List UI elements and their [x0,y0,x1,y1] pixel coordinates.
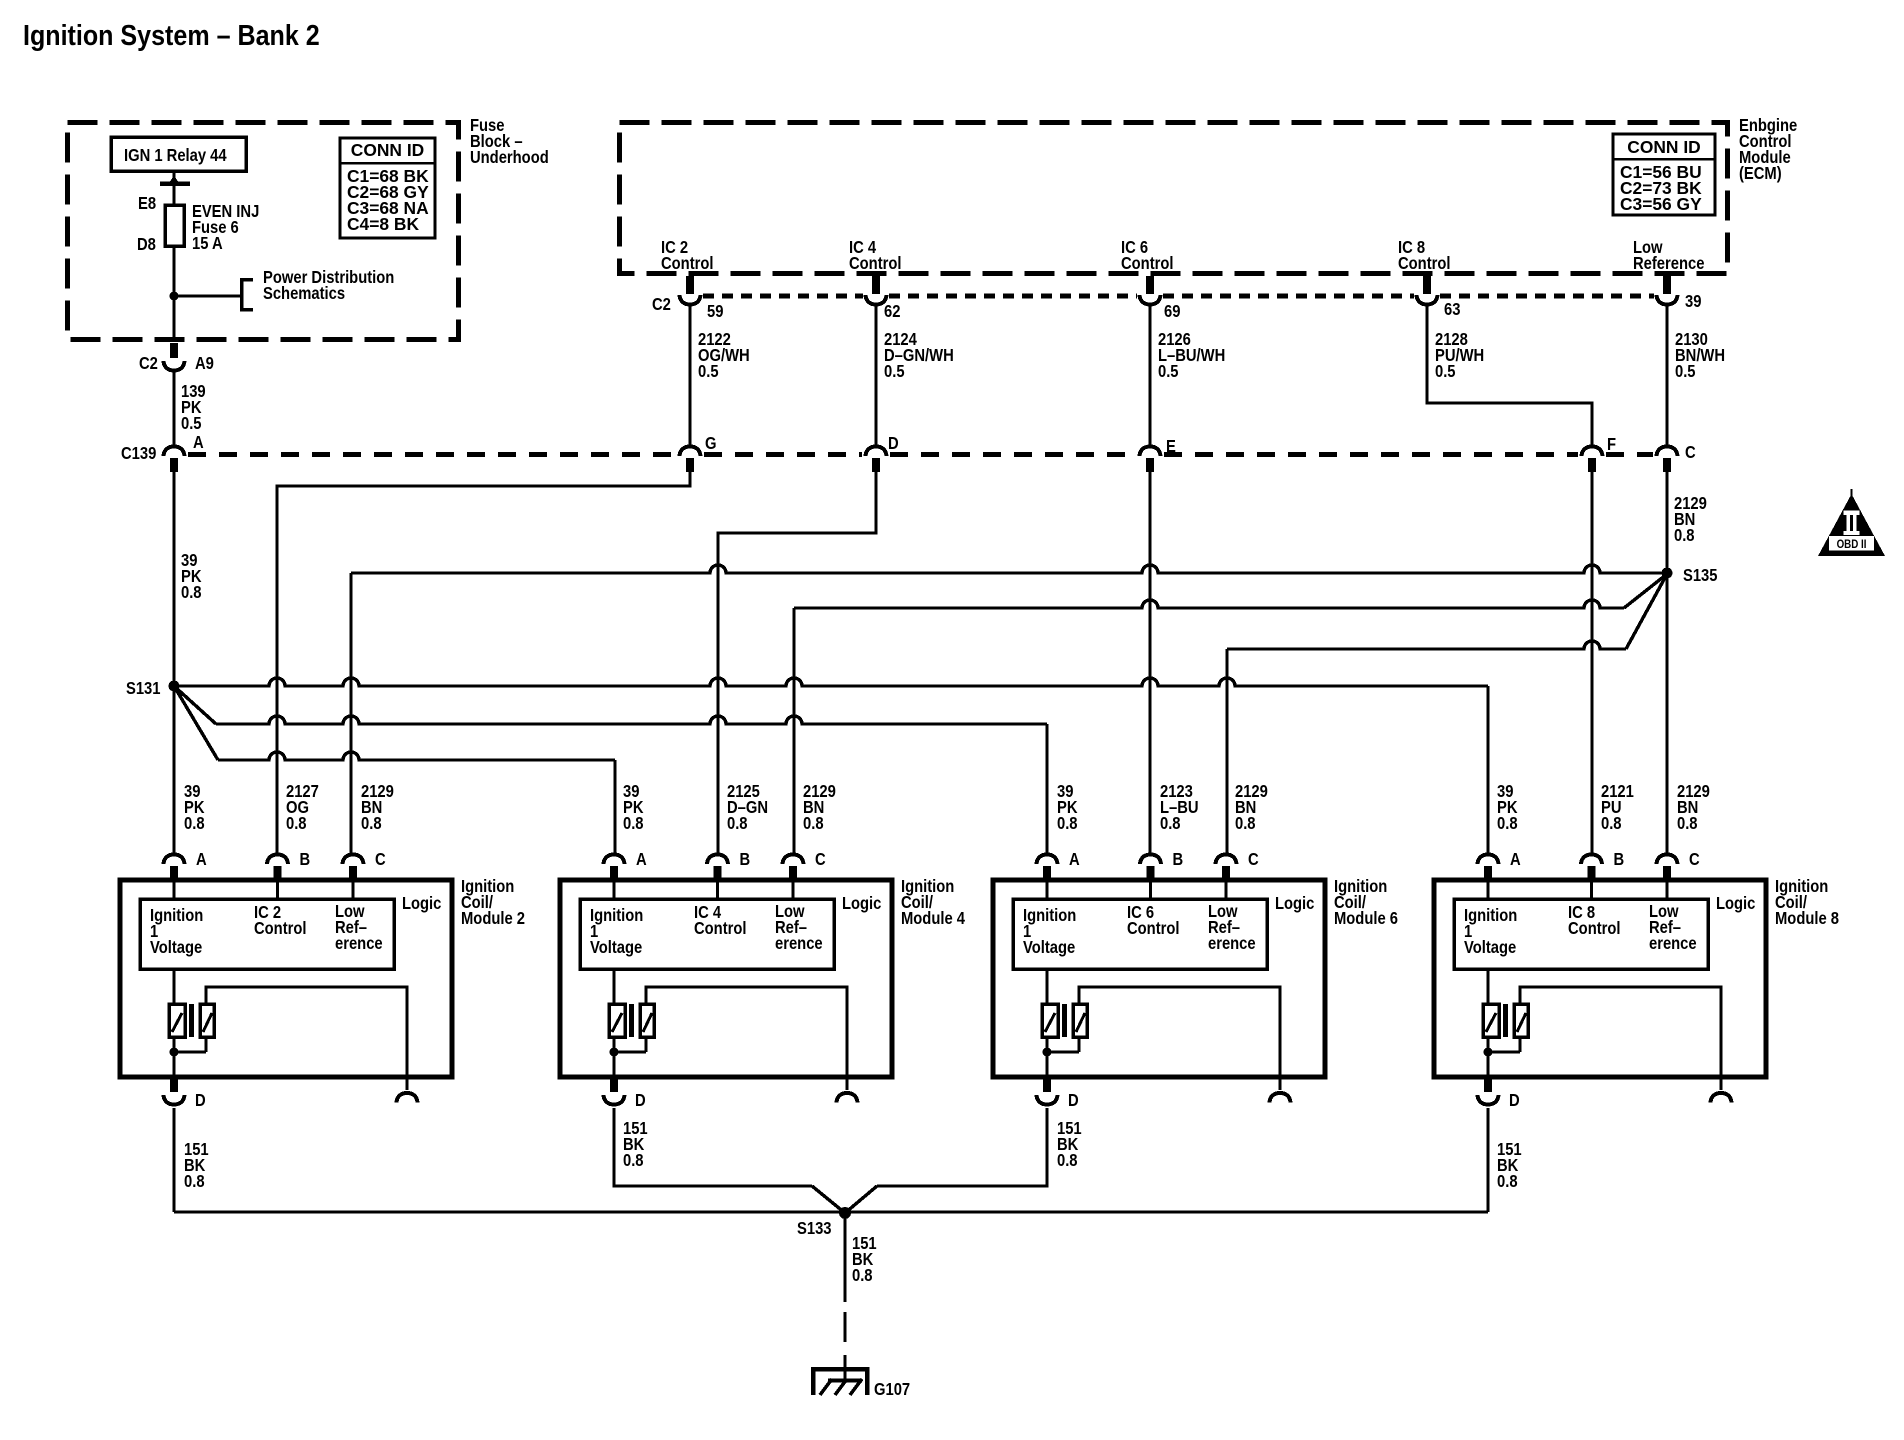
wire low reference module4 C to S135 [794,574,1667,853]
connector ECM C2 pin 69 [1140,276,1161,305]
svg-text:A9: A9 [195,354,214,373]
module 8 coil secondary winding [1514,1004,1528,1037]
svg-text:69: 69 [1164,302,1180,321]
module 8 pin C connector [1657,855,1678,882]
svg-text:A: A [196,850,207,869]
svg-text:Voltage: Voltage [1023,938,1075,957]
label Fuse Block Underhood [470,116,549,167]
label 39 PK 0.8 [184,782,205,833]
label 2125 D–GN 0.8 [727,782,768,833]
module 8 pin C internal wire [1665,881,1668,899]
wire 39 PK C139 A to S131 [172,472,175,686]
connector C2 terminal A9 [164,343,185,371]
label pin A module 4 [636,850,647,869]
svg-text:D: D [888,434,899,453]
svg-text:0.8: 0.8 [1235,814,1256,833]
svg-text:Control: Control [849,254,902,273]
wire 2127 OG from G to module2 B [277,472,690,853]
svg-text:erence: erence [775,934,823,953]
label Ignition 1 Voltage module 2 [150,906,203,957]
connector ECM C2 pin 63 [1417,276,1438,305]
label 2128 PU/WH 0.5 [1435,330,1484,381]
label 151 BK 0.8 at S133 [852,1234,877,1285]
label pin 69 [1164,302,1180,321]
svg-text:D: D [1509,1091,1520,1110]
svg-text:0.8: 0.8 [1601,814,1622,833]
fuse 6 EVEN INJ 15A [165,205,184,246]
svg-text:C: C [815,850,826,869]
module 2 logic box [140,899,394,969]
module 6 pin B internal wire [1149,881,1152,899]
module 2 pin A internal wire [172,881,175,899]
module 8 pin B internal wire [1590,881,1593,899]
label pin F [1607,435,1616,454]
label pin A module 2 [196,850,207,869]
module 4 coil core [629,1004,634,1037]
svg-text:Ignition System – Bank 2: Ignition System – Bank 2 [23,20,320,52]
svg-text:G: G [705,434,716,453]
svg-text:B: B [740,850,751,869]
svg-text:S131: S131 [126,679,161,698]
label pin D module 4 [635,1091,646,1110]
label pin 62 [884,302,900,321]
wire 151 BK module8 D to S133 [1486,1108,1489,1212]
relay IGN 1 Relay 44 [111,137,246,171]
module 6 logic box [1013,899,1267,969]
module 4 secondary output terminal [837,1093,858,1103]
label Low Reference inside module 2 [335,902,383,953]
label pin C [1685,443,1696,462]
wire fuse to block edge [172,246,175,341]
label 2129 BN 0.8 [1677,782,1710,833]
label S131 [126,679,161,698]
connector C139 pin C [1657,447,1678,473]
svg-text:39: 39 [1685,292,1701,311]
svg-text:C3=56 GY: C3=56 GY [1620,194,1702,214]
connector ECM C2 pin 59 [680,276,701,305]
label Ignition Coil Module 6 [1334,877,1398,928]
module 4 coil primary winding [609,1004,625,1037]
label pin B module 4 [740,850,751,869]
wire 2128 IC8 to C139 F [1427,305,1592,447]
svg-text:OBD II: OBD II [1837,538,1867,551]
junction dot power distribution tap [170,292,179,301]
label Low Reference [1633,238,1704,273]
label IC 4 Control inside module [694,903,747,938]
label pin 59 [707,302,723,321]
svg-text:0.8: 0.8 [623,1151,644,1170]
wire S133 to ground G107 [843,1213,846,1380]
dashed connector line C139 [188,452,676,457]
svg-text:Module 8: Module 8 [1775,909,1839,928]
svg-text:Voltage: Voltage [150,938,202,957]
module 2 pin A connector [164,855,185,882]
connector C139 pin G [680,447,701,473]
module 6 secondary output terminal [1270,1093,1291,1103]
module 8 secondary high tension wire [1520,987,1721,1090]
svg-text:0.5: 0.5 [884,362,905,381]
svg-text:Module 4: Module 4 [901,909,965,928]
label pin 39 [1685,292,1701,311]
svg-text:0.8: 0.8 [1497,1172,1518,1191]
svg-text:C2: C2 [652,295,671,314]
svg-text:Control: Control [1568,919,1621,938]
label C2 at ECM connector [652,295,671,314]
svg-text:B: B [1614,850,1625,869]
svg-text:D: D [1068,1091,1079,1110]
wire 2122 IC2 to C139 G [688,305,691,447]
svg-text:C139: C139 [121,444,156,463]
module 6 coil primary feed wire [1045,969,1048,1004]
svg-text:Logic: Logic [402,894,441,913]
module 8 coil primary winding [1483,1004,1499,1037]
label pin G [705,434,716,453]
svg-text:0.8: 0.8 [803,814,824,833]
svg-text:Module 2: Module 2 [461,909,525,928]
svg-text:59: 59 [707,302,723,321]
svg-text:S135: S135 [1683,566,1718,585]
svg-text:F: F [1607,435,1616,454]
svg-text:0.5: 0.5 [181,414,202,433]
module 2 secondary output terminal [397,1093,418,1103]
module 4 coil common junction [610,1037,647,1077]
svg-text:0.8: 0.8 [181,583,202,602]
svg-text:erence: erence [335,934,383,953]
wire low reference bus module2 C to S135 [351,565,1667,853]
label Ignition Coil Module 8 [1775,877,1839,928]
svg-text:62: 62 [884,302,900,321]
module 6 secondary high tension wire [1079,987,1280,1090]
label 39 PK 0.8 [1057,782,1078,833]
svg-text:Logic: Logic [842,894,881,913]
module 4 pin C connector [783,855,804,882]
module 8 coil core [1503,1004,1508,1037]
svg-text:C2: C2 [139,354,158,373]
label Logic module 2 [402,894,441,913]
svg-text:D8: D8 [137,235,156,254]
ignition coil module 6 box [993,880,1325,1077]
label pin B module 2 [299,850,310,869]
wire 39 PK S131 to module6 A [174,686,1047,853]
svg-text:0.8: 0.8 [623,814,644,833]
svg-text:0.8: 0.8 [1674,526,1695,545]
svg-text:0.8: 0.8 [361,814,382,833]
label pin D [888,434,899,453]
svg-text:0.5: 0.5 [698,362,719,381]
label 39 PK 0.8 [1497,782,1518,833]
connector C139 pin A [164,447,185,473]
svg-text:Control: Control [1398,254,1451,273]
svg-text:Control: Control [661,254,714,273]
label Ignition Coil Module 2 [461,877,525,928]
label 39 PK 0.8 upper [181,551,202,602]
svg-text:erence: erence [1208,934,1256,953]
module 6 coil primary winding [1042,1004,1058,1037]
wire 39 PK S131 to module4 A [174,686,615,853]
label Low Reference inside module 8 [1649,902,1697,953]
wire 2124 IC4 to C139 D [874,305,877,447]
svg-text:0.8: 0.8 [1497,814,1518,833]
module 2 pin B internal wire [276,881,279,899]
svg-text:B: B [1172,850,1183,869]
label A9 [195,354,214,373]
svg-text:0.8: 0.8 [1057,814,1078,833]
svg-text:Control: Control [1121,254,1174,273]
label pin B module 6 [1172,850,1183,869]
svg-text:0.8: 0.8 [852,1266,873,1285]
svg-text:Schematics: Schematics [263,284,345,303]
module 2 pin C internal wire [351,881,354,899]
label 151 BK 0.8 module8 [1497,1140,1522,1191]
svg-text:C: C [1685,443,1696,462]
svg-text:Voltage: Voltage [590,938,642,957]
label IC 6 Control inside module [1127,903,1180,938]
module 4 pin B connector [707,855,728,882]
label C2 [139,354,158,373]
svg-text:Reference: Reference [1633,254,1704,273]
label Ignition 1 Voltage module 6 [1023,906,1076,957]
label EVEN INJ Fuse 6 15 A [192,202,259,253]
svg-text:E8: E8 [138,194,156,213]
wire 151 BK module6 D to S133 [845,1108,1047,1213]
label G107 [874,1380,910,1399]
label pin C module 4 [815,850,826,869]
module 6 coil core [1062,1004,1067,1037]
label Ignition Coil Module 4 [901,877,965,928]
label 39 PK 0.8 [623,782,644,833]
wire 151 BK module2 D to S133 [172,1108,175,1212]
wire low reference module6 C to S135 [1227,574,1667,853]
svg-text:C4=8 BK: C4=8 BK [347,214,419,234]
svg-text:D: D [635,1091,646,1110]
label E8 [138,194,156,213]
wire 151 BK module4 D to S133 [614,1108,845,1213]
label pin C module 8 [1689,850,1700,869]
svg-text:Control: Control [254,919,307,938]
wire 39 PK S131 to module2 A [172,686,175,853]
label 2123 L–BU 0.8 [1160,782,1199,833]
module 2 pin B connector [267,855,288,882]
wire 2129 BN from C through S135 to module8 C [1665,472,1668,853]
label pin E [1166,437,1176,456]
svg-text:0.5: 0.5 [1158,362,1179,381]
wire 2126 IC6 to C139 E [1148,305,1151,447]
svg-text:15 A: 15 A [192,234,223,253]
svg-text:Underhood: Underhood [470,148,549,167]
label pin C module 6 [1248,850,1259,869]
label pin A module 8 [1510,850,1521,869]
svg-text:Logic: Logic [1275,894,1314,913]
conn id table fuse block [340,138,435,238]
module 4 logic box [580,899,834,969]
ignition coil module 8 box [1434,880,1766,1077]
module 8 coil primary feed wire [1486,969,1489,1004]
label 2129 BN 0.8 [1235,782,1268,833]
title Ignition System - Bank 2 [23,20,320,52]
module 4 pin A internal wire [612,881,615,899]
label 2124 D–GN/WH 0.5 [884,330,954,381]
splice S133 [839,1207,851,1219]
label Ignition 1 Voltage module 8 [1464,906,1517,957]
module 8 coil common junction [1484,1037,1521,1077]
svg-text:(ECM): (ECM) [1739,164,1782,183]
svg-text:C: C [1248,850,1259,869]
label Low Reference inside module 6 [1208,902,1256,953]
label 2129 BN 0.8 [803,782,836,833]
svg-text:A: A [1510,850,1521,869]
connector C139 pin D [866,447,887,473]
svg-text:B: B [299,850,310,869]
svg-text:Control: Control [694,919,747,938]
label 151 BK 0.8 module2 [184,1140,209,1191]
wire 2121 PU from F to module8 B [1590,472,1593,853]
module 6 pin A internal wire [1045,881,1048,899]
label pin D module 6 [1068,1091,1079,1110]
label 2130 BN/WH 0.5 [1675,330,1725,381]
label Ignition 1 Voltage module 4 [590,906,643,957]
ground symbol G107 [813,1369,867,1395]
splice S135 [1662,568,1673,579]
svg-text:S133: S133 [797,1219,832,1238]
svg-text:0.8: 0.8 [1057,1151,1078,1170]
module 4 pin C internal wire [791,881,794,899]
module 2 pin C connector [343,855,364,882]
svg-text:0.5: 0.5 [1435,362,1456,381]
connector C139 pin E [1140,447,1161,473]
label pin D module 2 [195,1091,206,1110]
ignition coil module 4 box [560,880,892,1077]
label 2129 BN 0.8 [361,782,394,833]
label 139 PK 0.5 [181,382,206,433]
module 4 secondary high tension wire [646,987,847,1090]
engine control module dashed box [620,123,1728,274]
splice S131 [169,681,180,692]
connector C139 pin F [1582,447,1603,473]
module 6 pin B connector [1140,855,1161,882]
conn id table ECM [1613,134,1715,215]
wire 2130 LowRef to C139 C [1665,305,1668,447]
module 8 pin A connector [1478,855,1499,882]
label Low Reference inside module 4 [775,902,823,953]
svg-text:C: C [1689,850,1700,869]
module 4 pin A connector [604,855,625,882]
module 6 pin D connector [1037,1077,1058,1105]
label Logic module 8 [1716,894,1755,913]
module 6 coil secondary winding [1073,1004,1087,1037]
power distribution schematics reference [242,268,395,310]
wire 2125 D-GN from D to module4 B [718,472,876,853]
wire 139 PK from C2 to C139 [172,370,175,447]
label 151 BK 0.8 module6 [1057,1119,1082,1170]
module 8 pin A internal wire [1486,881,1489,899]
fuse block underhood dashed box [68,123,459,340]
ground bus wire 151 BK [174,1210,1488,1213]
label 151 BK 0.8 module4 [623,1119,648,1170]
label IC 8 Control [1398,238,1451,273]
label pin C module 2 [375,850,386,869]
svg-text:CONN ID: CONN ID [1627,137,1700,157]
svg-text:0.8: 0.8 [184,1172,205,1191]
label 2127 OG 0.8 [286,782,319,833]
label C139 [121,444,156,463]
label IC 2 Control [661,238,714,273]
label pin A module 6 [1069,850,1080,869]
svg-text:Control: Control [1127,919,1180,938]
label D8 [137,235,156,254]
module 6 coil common junction [1043,1037,1080,1077]
module 8 pin B connector [1581,855,1602,882]
svg-text:0.8: 0.8 [727,814,748,833]
label IC 2 Control inside module [254,903,307,938]
svg-text:0.5: 0.5 [1675,362,1696,381]
svg-text:0.8: 0.8 [1677,814,1698,833]
wire 2123 L-BU from E to module6 B [1148,472,1151,853]
ignition coil module 2 box [120,880,452,1077]
label Logic module 4 [842,894,881,913]
svg-text:A: A [193,433,204,452]
connector ECM C2 pin 39 [1657,276,1678,305]
label 2122 OG/WH 0.5 [698,330,750,381]
label 2129 BN 0.8 upper [1674,494,1707,545]
label Enbgine Control Module ECM [1739,116,1797,183]
module 6 pin A connector [1037,855,1058,882]
svg-text:Logic: Logic [1716,894,1755,913]
module 2 coil primary feed wire [172,969,175,1004]
label S133 [797,1219,832,1238]
module 4 pin B internal wire [716,881,719,899]
svg-text:0.8: 0.8 [184,814,205,833]
dotted harness line at ECM connector [703,294,863,299]
svg-text:G107: G107 [874,1380,910,1399]
label pin A [193,433,204,452]
module 6 pin C internal wire [1224,881,1227,899]
label Logic module 6 [1275,894,1314,913]
wire relay to fuse [160,171,190,205]
label 2126 L–BU/WH 0.5 [1158,330,1225,381]
svg-text:A: A [636,850,647,869]
svg-text:D: D [195,1091,206,1110]
label pin B module 8 [1614,850,1625,869]
module 2 coil common junction [170,1037,207,1077]
svg-text:0.8: 0.8 [1160,814,1181,833]
svg-text:Module 6: Module 6 [1334,909,1398,928]
svg-text:A: A [1069,850,1080,869]
OBD II emblem [1818,489,1885,556]
wire 39 PK S131 to module8 A [174,678,1488,853]
module 6 pin C connector [1216,855,1237,882]
module 2 coil primary winding [169,1004,185,1037]
module 8 logic box [1454,899,1708,969]
module 8 pin D connector [1478,1077,1499,1105]
label IC 6 Control [1121,238,1174,273]
label pin 63 [1444,300,1460,319]
label pin D module 8 [1509,1091,1520,1110]
module 2 pin D connector [164,1077,185,1105]
wire to power distribution bracket [174,294,241,297]
svg-text:Voltage: Voltage [1464,938,1516,957]
svg-text:63: 63 [1444,300,1460,319]
svg-text:IGN 1 Relay 44: IGN 1 Relay 44 [124,146,227,165]
svg-text:erence: erence [1649,934,1697,953]
svg-text:0.8: 0.8 [286,814,307,833]
label IC 8 Control inside module [1568,903,1621,938]
module 2 coil core [189,1004,194,1037]
connector ECM C2 pin 62 [866,276,887,305]
label S135 [1683,566,1718,585]
module 4 coil primary feed wire [612,969,615,1004]
svg-text:CONN ID: CONN ID [351,140,424,160]
module 8 secondary output terminal [1711,1093,1732,1103]
